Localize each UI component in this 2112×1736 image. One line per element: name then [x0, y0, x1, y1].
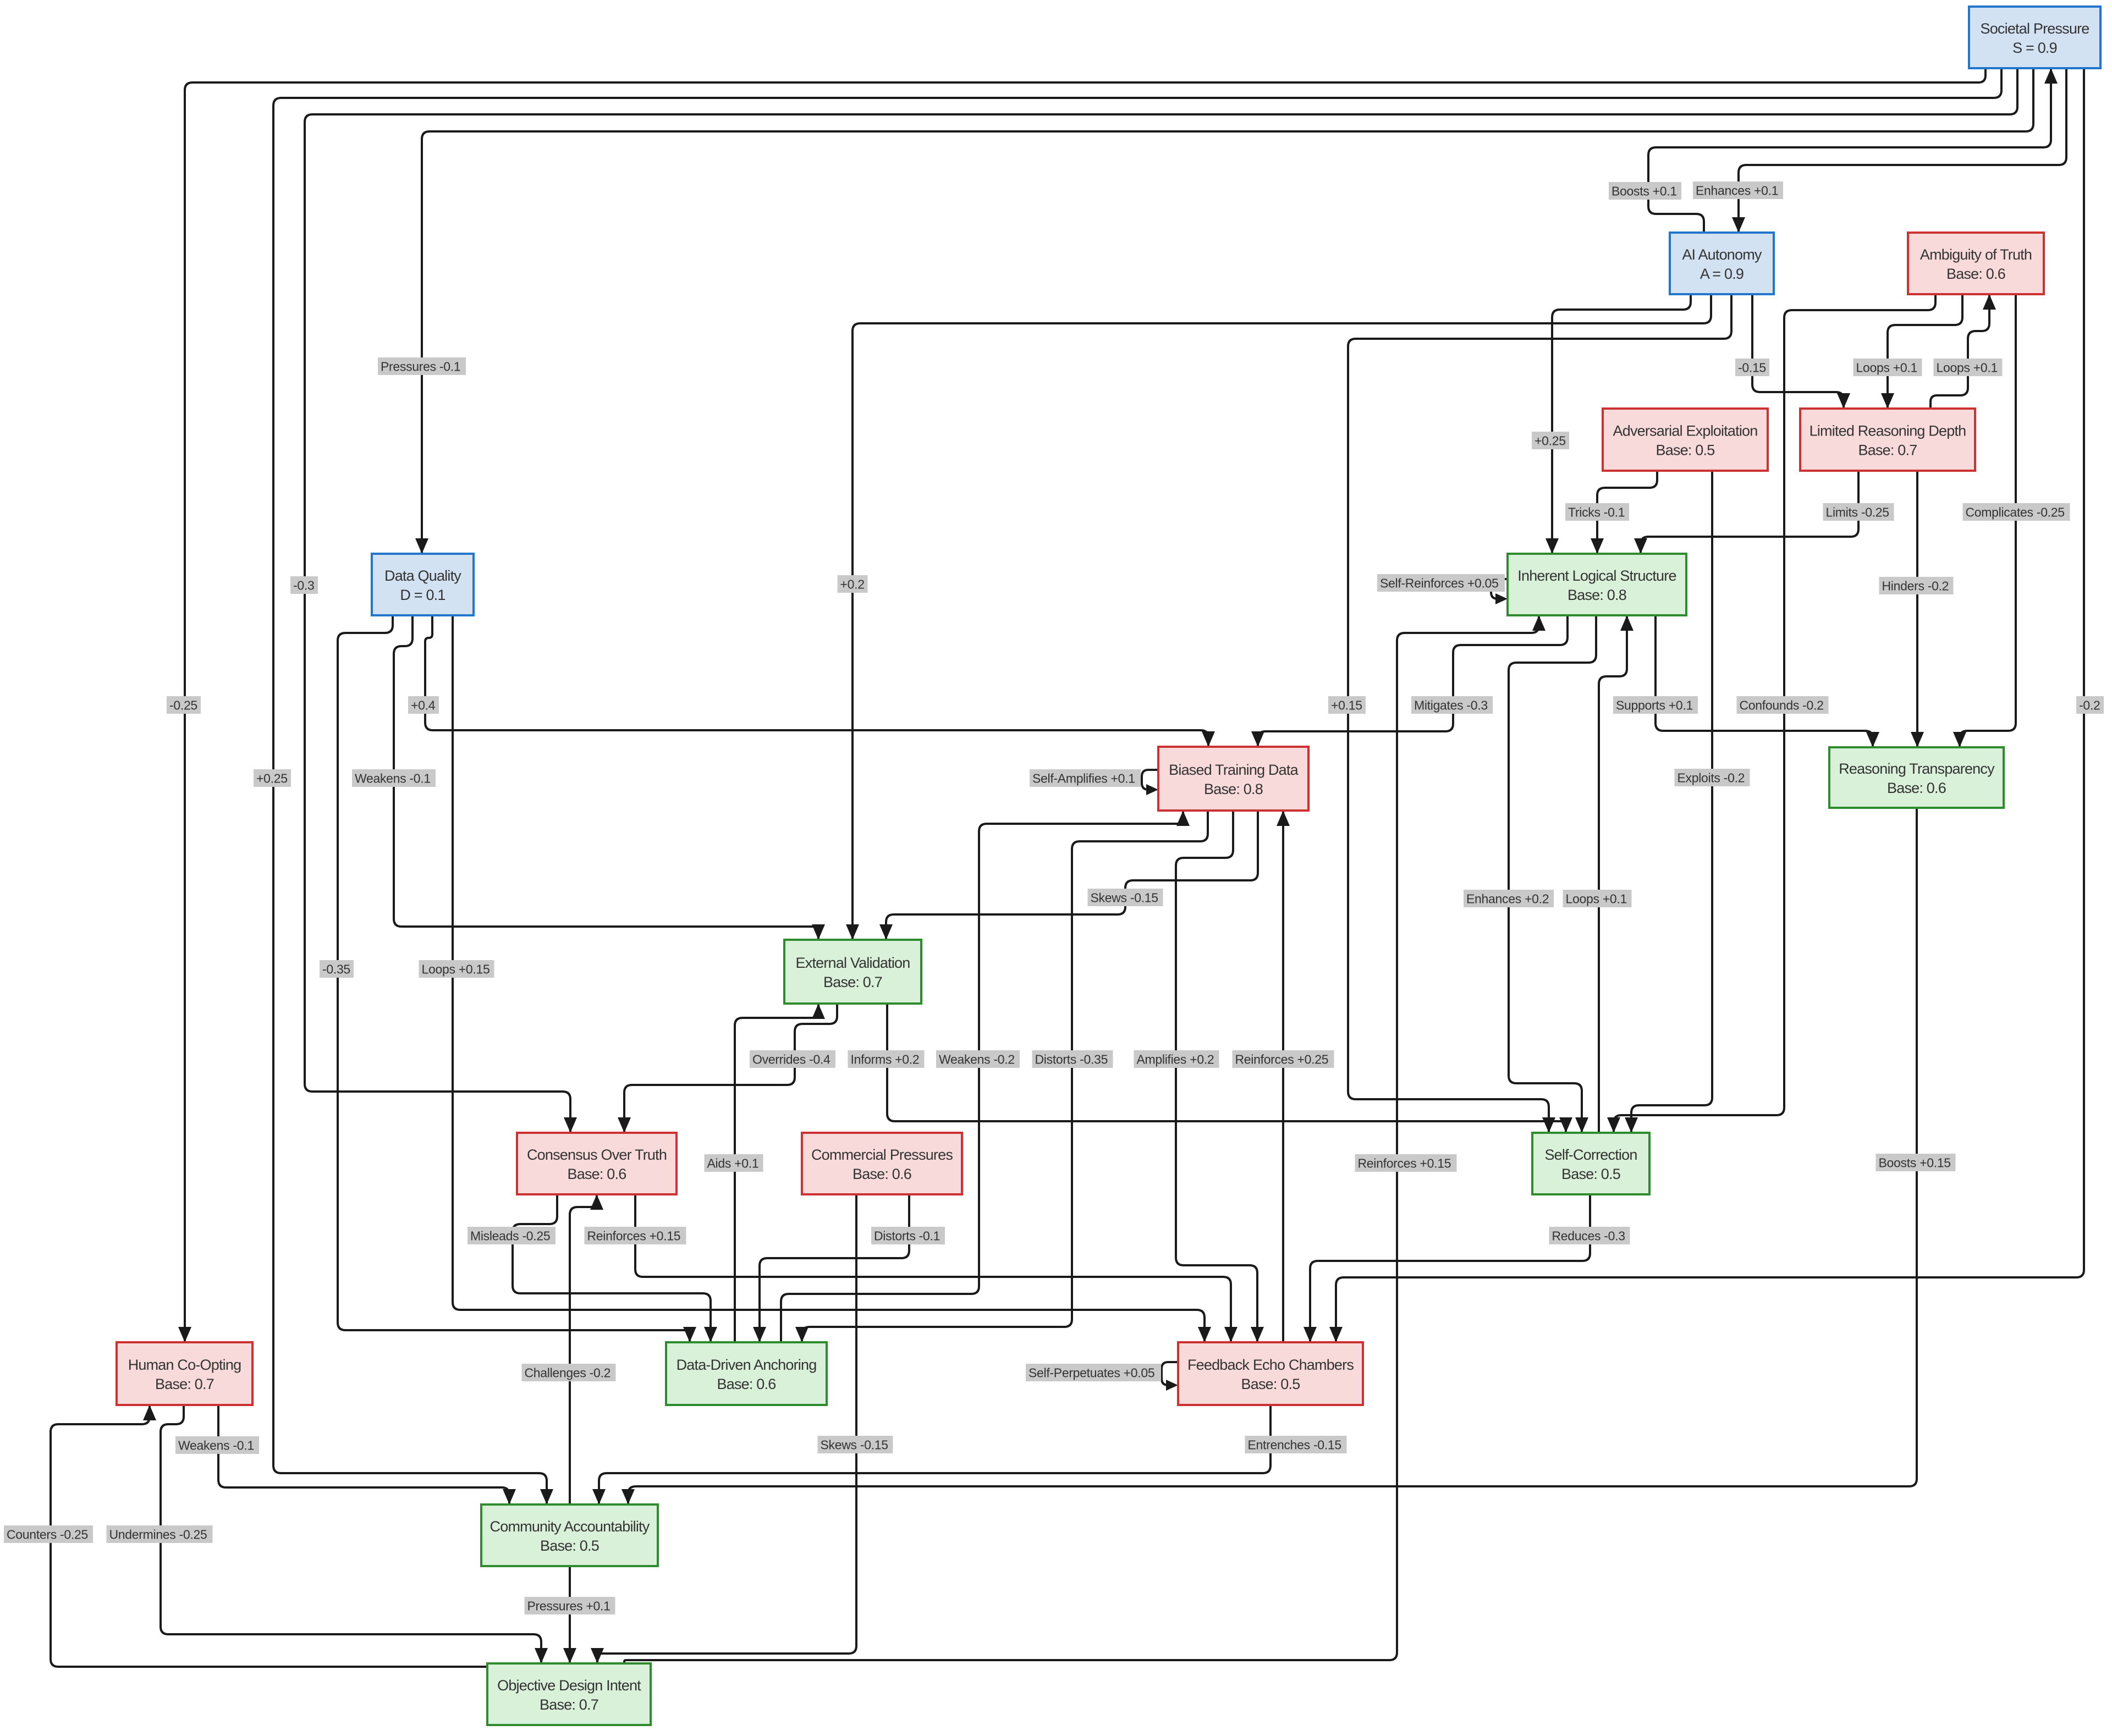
edge label -0.35 — [320, 960, 354, 978]
edge label Exploits -0.2 — [1675, 769, 1750, 786]
svg-text:Base: 0.6: Base: 0.6 — [1946, 266, 2005, 282]
svg-text:Limited Reasoning Depth: Limited Reasoning Depth — [1810, 423, 1966, 439]
edge Societal Pressure to Data Quality (Pressures -0.1) — [415, 68, 2033, 554]
svg-text:Commercial Pressures: Commercial Pressures — [811, 1147, 953, 1163]
edge label Self-Reinforces +0.05 — [1377, 574, 1505, 592]
edge Self-Correction to Inherent Logical Structure (Loops +0.1) — [1599, 615, 1634, 1133]
edge label Supports +0.1 — [1613, 696, 1698, 714]
edge label +0.25 — [254, 769, 291, 787]
edge Ambiguity of Truth to Limited Reasoning Depth (Loops +0.1) — [1881, 294, 1962, 409]
svg-text:Base: 0.7: Base: 0.7 — [155, 1376, 214, 1392]
edge label Boosts +0.1 — [1609, 182, 1681, 200]
svg-text:Base: 0.5: Base: 0.5 — [540, 1537, 599, 1554]
svg-text:Loops +0.1: Loops +0.1 — [1937, 361, 1998, 375]
edge AI Autonomy to Societal Pressure (Boosts +0.1) — [1648, 68, 2058, 233]
edge label Loops +0.15 — [419, 960, 494, 978]
edge Community Accountability to Objective Design Intent (Pressures +0.1) — [563, 1566, 576, 1663]
edge label -0.3 — [290, 576, 318, 594]
svg-text:Base: 0.7: Base: 0.7 — [823, 974, 882, 990]
node Inherent Logical Structure — [1508, 554, 1686, 615]
svg-text:Base: 0.7: Base: 0.7 — [540, 1696, 598, 1713]
edge label Hinders -0.2 — [1879, 577, 1954, 594]
svg-text:Aids +0.1: Aids +0.1 — [707, 1156, 759, 1171]
svg-text:Consensus Over Truth: Consensus Over Truth — [527, 1147, 667, 1163]
svg-text:Societal Pressure: Societal Pressure — [1981, 20, 2089, 37]
edge Data Quality to Data-Driven Anchoring (-0.35) — [338, 615, 696, 1342]
edge label Weakens -0.2 — [936, 1050, 1020, 1068]
edge label Loops +0.1 — [1934, 359, 2003, 376]
svg-text:Loops +0.1: Loops +0.1 — [1566, 892, 1627, 906]
svg-text:Pressures +0.1: Pressures +0.1 — [527, 1599, 610, 1613]
node Ambiguity of Truth — [1908, 233, 2044, 294]
edge label Entrenches -0.15 — [1245, 1436, 1347, 1453]
svg-text:Weakens -0.2: Weakens -0.2 — [939, 1052, 1015, 1067]
svg-text:Feedback Echo Chambers: Feedback Echo Chambers — [1187, 1357, 1354, 1373]
edge Limited Reasoning Depth to Reasoning Transparency (Hinders -0.2) — [1911, 471, 1924, 747]
edge Commercial Pressures to Objective Design Intent (Skews -0.15) — [591, 1194, 856, 1663]
svg-text:+0.2: +0.2 — [840, 577, 865, 592]
svg-text:Weakens -0.1: Weakens -0.1 — [355, 771, 431, 786]
edge Ambiguity of Truth to Reasoning Transparency (Complicates -0.25) — [1953, 294, 2016, 747]
edge Community Accountability to Consensus Over Truth (Challenges -0.2) — [570, 1194, 603, 1504]
node Reasoning Transparency — [1829, 747, 2004, 808]
node Commercial Pressures — [802, 1133, 962, 1194]
edge Societal Pressure to Human Co-Opting (-0.25) — [178, 68, 1986, 1342]
edge label -0.2 — [2076, 696, 2104, 714]
edge Inherent Logical Structure to Biased Training Data (Mitigates -0.3) — [1251, 615, 1568, 747]
svg-text:Loops +0.1: Loops +0.1 — [1856, 361, 1917, 375]
edge label Boosts +0.15 — [1876, 1154, 1956, 1171]
svg-text:Reinforces +0.15: Reinforces +0.15 — [1358, 1156, 1451, 1171]
edge label Pressures +0.1 — [525, 1597, 615, 1614]
edge label Pressures -0.1 — [378, 357, 466, 375]
edge label Reinforces +0.15 — [585, 1227, 686, 1244]
edge AI Autonomy to Inherent Logical Structure (+0.25) — [1546, 294, 1691, 554]
edge label Amplifies +0.2 — [1134, 1050, 1219, 1068]
edge label Mitigates -0.3 — [1411, 696, 1493, 714]
svg-text:Objective Design Intent: Objective Design Intent — [497, 1677, 641, 1694]
edge label Complicates -0.25 — [1963, 503, 2070, 521]
edge label Informs +0.2 — [848, 1050, 925, 1068]
edge Human Co-Opting to Community Accountability (Weakens -0.1) — [218, 1405, 516, 1504]
edge label Misleads -0.25 — [468, 1227, 555, 1244]
svg-text:Self-Amplifies +0.1: Self-Amplifies +0.1 — [1032, 771, 1135, 786]
node Limited Reasoning Depth — [1800, 409, 1975, 471]
edge Adversarial Exploitation to Self-Correction (Exploits -0.2) — [1625, 471, 1712, 1133]
edge Inherent Logical Structure to Reasoning Transparency (Supports +0.1) — [1656, 615, 1879, 747]
edge Data Quality to Biased Training Data (+0.4) — [425, 615, 1215, 747]
edge label Counters -0.25 — [4, 1525, 93, 1543]
edge Limited Reasoning Depth to Ambiguity of Truth (Loops +0.1) — [1931, 294, 1996, 409]
edge Inherent Logical Structure to Self-Correction (Enhances +0.2) — [1509, 615, 1596, 1133]
edge Objective Design Intent to Inherent Logical Structure (Reinforces +0.15) — [624, 615, 1546, 1663]
edge label Overrides -0.4 — [750, 1050, 835, 1068]
svg-text:Challenges -0.2: Challenges -0.2 — [525, 1366, 611, 1380]
svg-text:Base: 0.8: Base: 0.8 — [1204, 781, 1263, 797]
edge Ambiguity of Truth to Self-Correction (Confounds -0.2) — [1607, 294, 1935, 1133]
svg-text:Reduces -0.3: Reduces -0.3 — [1552, 1229, 1625, 1243]
svg-text:Exploits -0.2: Exploits -0.2 — [1678, 771, 1745, 785]
edge Data-Driven Anchoring to Biased Training Data (Weakens -0.2) — [781, 811, 1190, 1342]
svg-text:Human Co-Opting: Human Co-Opting — [128, 1357, 241, 1373]
edge AI Autonomy to Self-Correction (+0.15) — [1348, 294, 1731, 1133]
edge label -0.25 — [167, 696, 201, 714]
svg-text:Informs +0.2: Informs +0.2 — [851, 1052, 920, 1067]
node Feedback Echo Chambers — [1178, 1342, 1363, 1405]
edge label +0.15 — [1328, 696, 1366, 714]
svg-text:Distorts -0.1: Distorts -0.1 — [874, 1229, 940, 1243]
svg-text:Community Accountability: Community Accountability — [490, 1518, 650, 1535]
edge Biased Training Data to Feedback Echo Chambers (Amplifies +0.2) — [1176, 811, 1264, 1342]
svg-text:Base: 0.5: Base: 0.5 — [1561, 1166, 1620, 1182]
svg-text:-0.2: -0.2 — [2079, 698, 2100, 713]
node Human Co-Opting — [117, 1342, 252, 1405]
svg-text:Base: 0.6: Base: 0.6 — [717, 1376, 776, 1392]
edge Objective Design Intent to Human Co-Opting (Counters -0.25) — [51, 1405, 487, 1667]
edge label Undermines -0.25 — [107, 1525, 213, 1543]
edge label Self-Amplifies +0.1 — [1030, 769, 1141, 787]
svg-text:External Validation: External Validation — [796, 955, 910, 971]
svg-text:A = 0.9: A = 0.9 — [1700, 266, 1744, 282]
svg-text:+0.15: +0.15 — [1331, 698, 1362, 713]
svg-text:Reasoning Transparency: Reasoning Transparency — [1839, 760, 1995, 777]
edge label Skews -0.15 — [818, 1436, 893, 1453]
edge label Tricks -0.1 — [1565, 503, 1629, 521]
edge Reasoning Transparency to Community Accountability (Boosts +0.15) — [621, 808, 1917, 1504]
svg-text:Inherent Logical Structure: Inherent Logical Structure — [1517, 567, 1676, 584]
edge Societal Pressure to AI Autonomy (Enhances +0.1) — [1732, 68, 2066, 233]
edge Biased Training Data to External Validation (Skews -0.15) — [879, 811, 1258, 940]
edge label +0.4 — [408, 696, 439, 714]
edge label Reinforces +0.15 — [1355, 1154, 1457, 1172]
svg-text:S = 0.9: S = 0.9 — [2012, 40, 2057, 56]
edge label Limits -0.25 — [1823, 503, 1894, 521]
edge Data Quality to External Validation (Weakens -0.1) — [394, 615, 825, 940]
edge AI Autonomy to Limited Reasoning Depth (-0.15) — [1752, 294, 1850, 409]
node Community Accountability — [481, 1504, 658, 1566]
svg-text:D = 0.1: D = 0.1 — [400, 587, 445, 603]
self-loop Feedback Echo Chambers (Self-Perpetuates +0.05) — [1162, 1362, 1178, 1391]
svg-text:-0.25: -0.25 — [169, 698, 197, 713]
edge Human Co-Opting to Objective Design Intent (Undermines -0.25) — [161, 1405, 548, 1663]
edge label Challenges -0.2 — [522, 1364, 616, 1381]
svg-text:+0.4: +0.4 — [411, 698, 436, 713]
svg-text:Self-Correction: Self-Correction — [1544, 1147, 1637, 1163]
svg-text:Base: 0.6: Base: 0.6 — [853, 1166, 911, 1182]
svg-text:Enhances +0.1: Enhances +0.1 — [1696, 184, 1778, 198]
edge label +0.25 — [1532, 432, 1569, 449]
svg-text:Limits -0.25: Limits -0.25 — [1826, 505, 1889, 520]
node Data-Driven Anchoring — [666, 1342, 827, 1405]
svg-text:Undermines -0.25: Undermines -0.25 — [109, 1528, 207, 1542]
edge Societal Pressure to Consensus Over Truth (-0.3) — [305, 68, 2017, 1133]
svg-text:Complicates -0.25: Complicates -0.25 — [1966, 505, 2065, 520]
node Objective Design Intent — [487, 1663, 651, 1725]
svg-text:Base: 0.5: Base: 0.5 — [1656, 442, 1715, 459]
svg-text:Ambiguity of Truth: Ambiguity of Truth — [1920, 246, 2032, 263]
edge label Loops +0.1 — [1854, 359, 1922, 376]
edge label Distorts -0.1 — [871, 1227, 945, 1244]
node Data Quality — [372, 554, 474, 615]
svg-text:Loops +0.15: Loops +0.15 — [422, 962, 490, 977]
svg-text:Self-Reinforces +0.05: Self-Reinforces +0.05 — [1380, 576, 1499, 591]
edge External Validation to Consensus Over Truth (Overrides -0.4) — [618, 1004, 837, 1133]
svg-text:Data Quality: Data Quality — [384, 567, 461, 584]
edge label Reinforces +0.25 — [1233, 1050, 1334, 1068]
edge Societal Pressure to Feedback Echo Chambers (-0.2) — [1329, 68, 2084, 1342]
edge label Self-Perpetuates +0.05 — [1026, 1364, 1161, 1381]
svg-text:Misleads -0.25: Misleads -0.25 — [470, 1229, 550, 1243]
self-loop Biased Training Data (Self-Amplifies +0.1) — [1142, 770, 1158, 795]
edge Data Quality to Feedback Echo Chambers (Loops +0.15) — [453, 615, 1211, 1342]
node Consensus Over Truth — [517, 1133, 676, 1194]
svg-text:Reinforces +0.25: Reinforces +0.25 — [1235, 1052, 1329, 1067]
svg-text:Base: 0.6: Base: 0.6 — [568, 1166, 626, 1182]
svg-text:Boosts +0.15: Boosts +0.15 — [1879, 1156, 1951, 1170]
node External Validation — [784, 940, 921, 1004]
node AI Autonomy — [1670, 233, 1774, 294]
svg-text:Supports +0.1: Supports +0.1 — [1616, 698, 1693, 713]
edge label Enhances +0.1 — [1693, 181, 1783, 199]
svg-text:Overrides -0.4: Overrides -0.4 — [752, 1052, 831, 1067]
svg-text:Confounds -0.2: Confounds -0.2 — [1740, 698, 1824, 713]
edge Consensus Over Truth to Data-Driven Anchoring (Misleads -0.25) — [513, 1194, 717, 1342]
edge AI Autonomy to External Validation (+0.2) — [846, 294, 1711, 940]
svg-text:Adversarial Exploitation: Adversarial Exploitation — [1613, 423, 1758, 439]
edge Consensus Over Truth to Feedback Echo Chambers (Reinforces +0.15) — [635, 1194, 1237, 1342]
svg-text:Boosts +0.1: Boosts +0.1 — [1612, 184, 1677, 199]
svg-text:Distorts -0.35: Distorts -0.35 — [1035, 1052, 1108, 1067]
edge label Reduces -0.3 — [1549, 1227, 1630, 1244]
svg-text:+0.25: +0.25 — [256, 771, 288, 786]
svg-text:Skews -0.15: Skews -0.15 — [1091, 891, 1158, 905]
edge Biased Training Data to Data-Driven Anchoring (Distorts -0.35) — [795, 811, 1208, 1342]
svg-text:Biased Training Data: Biased Training Data — [1169, 762, 1299, 778]
edge Feedback Echo Chambers to Biased Training Data (Reinforces +0.25) — [1277, 811, 1290, 1342]
svg-text:AI Autonomy: AI Autonomy — [1682, 246, 1762, 263]
svg-text:Weakens -0.1: Weakens -0.1 — [178, 1439, 254, 1453]
svg-text:Data-Driven Anchoring: Data-Driven Anchoring — [676, 1357, 817, 1373]
edge Commercial Pressures to Data-Driven Anchoring (Distorts -0.1) — [753, 1194, 909, 1342]
svg-text:Mitigates -0.3: Mitigates -0.3 — [1414, 698, 1488, 713]
node Biased Training Data — [1158, 747, 1308, 811]
edge Self-Correction to Feedback Echo Chambers (Reduces -0.3) — [1303, 1194, 1590, 1342]
svg-text:-0.3: -0.3 — [293, 578, 314, 593]
edge label Weakens -0.1 — [352, 769, 436, 787]
svg-text:Pressures -0.1: Pressures -0.1 — [381, 360, 460, 374]
svg-text:Skews -0.15: Skews -0.15 — [821, 1438, 888, 1452]
svg-text:Enhances +0.2: Enhances +0.2 — [1466, 892, 1549, 906]
edge External Validation to Self-Correction (Informs +0.2) — [887, 1004, 1572, 1133]
edge Feedback Echo Chambers to Community Accountability (Entrenches -0.15) — [592, 1405, 1270, 1504]
svg-text:Base: 0.6: Base: 0.6 — [1887, 780, 1946, 796]
edge label Weakens -0.1 — [175, 1436, 259, 1454]
svg-text:Self-Perpetuates +0.05: Self-Perpetuates +0.05 — [1028, 1366, 1154, 1380]
edge Societal Pressure to Community Accountability (+0.25) — [273, 68, 2001, 1504]
svg-text:-0.35: -0.35 — [322, 962, 350, 977]
edge Adversarial Exploitation to Inherent Logical Structure (Tricks -0.1) — [1591, 471, 1657, 554]
svg-text:Tricks -0.1: Tricks -0.1 — [1568, 505, 1625, 520]
edge label Skews -0.15 — [1088, 889, 1163, 906]
edge label Loops +0.1 — [1563, 890, 1632, 907]
edge label Enhances +0.2 — [1464, 890, 1554, 907]
edge label Aids +0.1 — [705, 1154, 763, 1172]
node Adversarial Exploitation — [1603, 409, 1768, 471]
node Self-Correction — [1532, 1133, 1649, 1194]
svg-text:+0.25: +0.25 — [1535, 434, 1566, 448]
edge Data-Driven Anchoring to External Validation (Aids +0.1) — [735, 1004, 825, 1342]
svg-text:Hinders -0.2: Hinders -0.2 — [1882, 579, 1949, 593]
self-loop Inherent Logical Structure (Self-Reinforces +0.05) — [1491, 579, 1508, 604]
svg-text:Base: 0.5: Base: 0.5 — [1241, 1376, 1300, 1392]
svg-text:Base: 0.8: Base: 0.8 — [1568, 587, 1626, 603]
svg-text:Reinforces +0.15: Reinforces +0.15 — [587, 1229, 681, 1243]
svg-text:-0.15: -0.15 — [1738, 361, 1766, 375]
edge label -0.15 — [1735, 359, 1769, 376]
edge Limited Reasoning Depth to Inherent Logical Structure (Limits -0.25) — [1634, 471, 1858, 554]
svg-text:Entrenches -0.15: Entrenches -0.15 — [1248, 1438, 1341, 1452]
svg-text:Counters -0.25: Counters -0.25 — [7, 1528, 88, 1542]
svg-text:Base: 0.7: Base: 0.7 — [1858, 442, 1917, 459]
edge label Confounds -0.2 — [1737, 696, 1829, 714]
edge label +0.2 — [838, 575, 868, 593]
node Societal Pressure — [1969, 7, 2100, 68]
svg-text:Amplifies +0.2: Amplifies +0.2 — [1137, 1052, 1214, 1067]
edge label Distorts -0.35 — [1032, 1050, 1113, 1068]
